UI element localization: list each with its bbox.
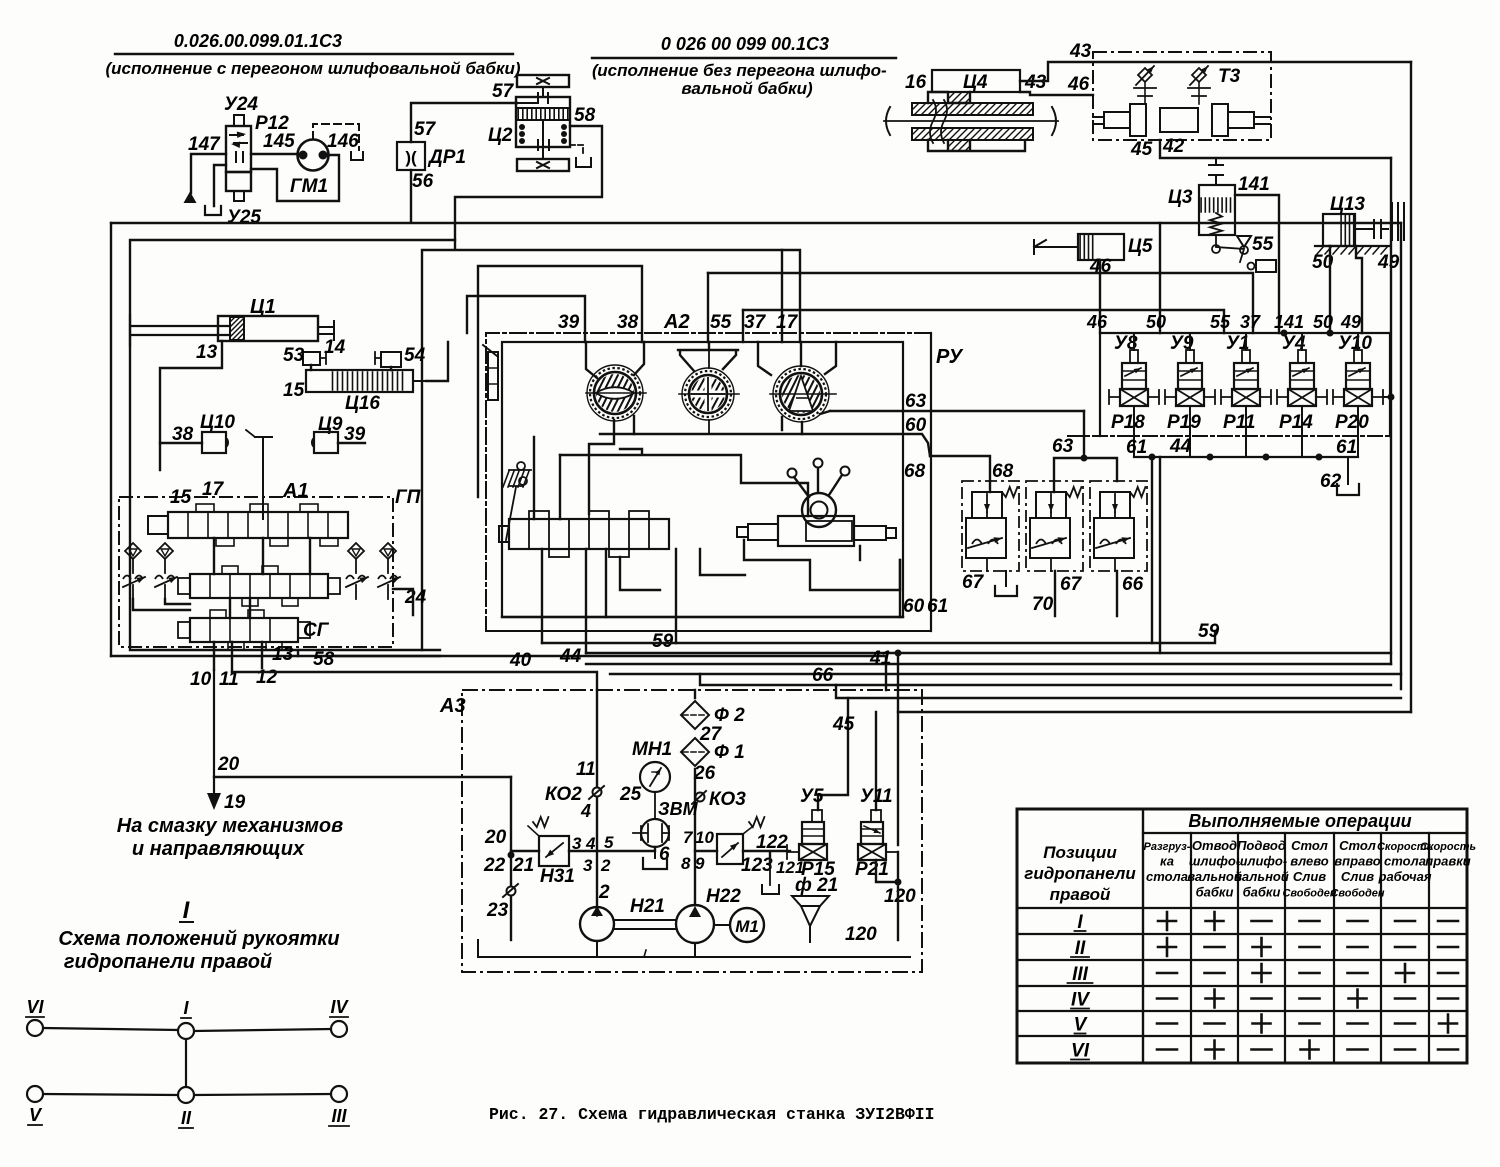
table outer frame <box>1017 809 1467 1063</box>
valve Р18 side ports <box>1109 390 1120 404</box>
svg-text:147: 147 <box>188 134 221 155</box>
svg-text:67: 67 <box>962 572 985 593</box>
motor 1 mount <box>586 342 644 378</box>
svg-text:У25: У25 <box>227 207 261 228</box>
grinding motor circle tri <box>773 366 829 422</box>
solenoid valve У1 coil <box>1234 363 1258 389</box>
svg-text:)(: )( <box>405 148 417 167</box>
valve C10 body <box>202 432 226 453</box>
svg-text:гидропанели правой: гидропанели правой <box>64 951 272 973</box>
C2 dashed drain <box>570 145 583 156</box>
svg-text:I: I <box>1077 912 1083 933</box>
svg-text:49: 49 <box>1377 252 1400 273</box>
motor 2 center vertical <box>708 350 710 434</box>
bus y653 <box>586 652 1391 654</box>
check 23 <box>507 887 516 896</box>
cylinder C4 upper step <box>928 92 970 103</box>
grinding motor circle lens <box>587 365 643 421</box>
solenoid valve У10 pin <box>1354 350 1362 363</box>
valve Р19 X body <box>1176 389 1204 406</box>
cylinder C1 rod right <box>318 321 334 340</box>
valve bank bottom dash-dot <box>1068 435 1390 437</box>
svg-text:РУ: РУ <box>936 346 964 368</box>
svg-text:(исполнение с перегоном шлифов: (исполнение с перегоном шлифовальной баб… <box>105 59 520 78</box>
dash-dot box A1 <box>119 497 393 647</box>
svg-text:63: 63 <box>905 391 927 412</box>
svg-text:16: 16 <box>905 72 927 93</box>
svg-text:и направляющих: и направляющих <box>132 838 305 860</box>
wire 37 long <box>708 273 1253 333</box>
svg-text:20: 20 <box>484 827 507 848</box>
wire 49 down <box>1356 246 1362 333</box>
A2 inner solid box <box>502 342 903 617</box>
svg-text:66: 66 <box>812 665 834 686</box>
svg-text:Слив: Слив <box>1341 869 1374 884</box>
valve 53 box <box>303 352 320 365</box>
svg-text:VI: VI <box>1071 1041 1090 1062</box>
svg-text:IV: IV <box>1071 990 1090 1011</box>
motor 1 axis <box>586 392 646 394</box>
valve Р19 bottom wire <box>1189 406 1191 457</box>
svg-text:СГ: СГ <box>303 620 330 641</box>
A2 spool manifold <box>509 519 669 549</box>
handle unit left caps <box>748 524 778 540</box>
C13 ground hatch <box>1315 245 1390 247</box>
svg-text:61: 61 <box>1336 437 1357 458</box>
bus y631 dashdot <box>486 630 931 632</box>
svg-text:стола: стола <box>1146 869 1188 884</box>
svg-text:3: 3 <box>583 856 593 875</box>
svg-text:Р21: Р21 <box>855 859 889 880</box>
bracket 24 <box>393 589 413 615</box>
svg-text:Ц16: Ц16 <box>345 393 380 414</box>
handle unit body <box>778 516 854 546</box>
position link VI-I <box>43 1028 178 1030</box>
svg-text:141: 141 <box>1238 174 1270 195</box>
svg-text:17: 17 <box>776 312 799 333</box>
svg-text:влево: влево <box>1290 854 1329 869</box>
tank 123 <box>762 885 779 894</box>
svg-text:Разгруз-: Разгруз- <box>1144 841 1191 853</box>
svg-text:26: 26 <box>693 763 716 784</box>
solenoid valve У9 coil <box>1178 363 1202 389</box>
svg-text:Н31: Н31 <box>540 866 575 887</box>
svg-text:рабочая: рабочая <box>1378 869 1432 884</box>
coupling shafts <box>614 920 676 929</box>
C3 lever triangle <box>1237 236 1251 247</box>
manifold down wires <box>542 549 676 643</box>
position node IV <box>331 1021 347 1037</box>
handle unit pipes <box>744 540 900 590</box>
wire KO2 vertical <box>596 690 598 907</box>
cylinder C2 top clutch bars <box>516 93 569 103</box>
cylinder C2 top plate <box>517 75 569 87</box>
wire P20 right <box>1383 396 1391 398</box>
svg-text:141: 141 <box>1274 312 1304 332</box>
motor 2 mount <box>678 342 738 371</box>
svg-text:38: 38 <box>617 312 639 333</box>
svg-text:61: 61 <box>1126 437 1147 458</box>
cylinder C16 body <box>306 370 413 392</box>
svg-text:66: 66 <box>1122 574 1144 595</box>
svg-text:Скорость: Скорость <box>1420 841 1476 853</box>
A3 dash-dot box <box>462 690 922 972</box>
wire 41 down <box>897 653 899 845</box>
svg-text:2: 2 <box>600 856 611 875</box>
cylinder C1 body <box>218 316 318 341</box>
svg-text:Выполняемые операции: Выполняемые операции <box>1188 811 1411 831</box>
valve C3 top symbol <box>1209 160 1223 185</box>
wire from C1 <box>160 341 222 443</box>
svg-text:Позиции: Позиции <box>1043 843 1117 862</box>
svg-text:68: 68 <box>904 461 926 482</box>
relief valve pipes <box>1050 512 1052 571</box>
svg-text:120: 120 <box>845 924 877 945</box>
wire 58 long <box>336 656 886 690</box>
wires A1 internal <box>214 538 310 618</box>
motor 3 mount <box>758 342 836 375</box>
relief valve lower throttle <box>1094 518 1134 558</box>
svg-text:Слив: Слив <box>1293 869 1326 884</box>
cylinder C4 lower hatched band <box>912 128 1033 140</box>
solenoid valve У8 coil <box>1122 363 1146 389</box>
bus 59 line <box>542 631 1215 643</box>
svg-text:55: 55 <box>1210 312 1231 332</box>
wire U25 to tank <box>214 165 226 206</box>
svg-text:21: 21 <box>512 855 534 876</box>
wire 43 from C4 to right edge <box>1020 62 1411 81</box>
svg-text:Ц3: Ц3 <box>1168 187 1193 208</box>
svg-text:23: 23 <box>486 900 509 921</box>
handle unit small circles <box>788 469 797 478</box>
cylinder C2 hatched band <box>516 108 570 120</box>
solenoid valve У10 coil <box>1346 363 1370 389</box>
valve bank outer box <box>1100 333 1390 436</box>
svg-text:исполнение без перегона шлифо-: исполнение без перегона шлифо- <box>597 61 887 80</box>
funnel F21 <box>792 896 829 906</box>
svg-text:15: 15 <box>170 487 192 508</box>
title 1 underline <box>115 53 513 55</box>
solenoid valve У4 pin <box>1298 350 1306 363</box>
relief valve pipes <box>1114 512 1116 571</box>
relief valve lower throttle <box>966 518 1006 558</box>
svg-text:43: 43 <box>1024 72 1047 93</box>
svg-text:Ф 2: Ф 2 <box>714 705 745 726</box>
svg-text:55: 55 <box>1252 234 1274 255</box>
svg-text:59: 59 <box>652 631 674 652</box>
valve U11 X <box>858 844 886 860</box>
suction line <box>478 941 910 957</box>
wire 20 bus <box>214 776 511 778</box>
svg-text:Н22: Н22 <box>706 886 741 907</box>
C3 lever linkage <box>1216 235 1244 262</box>
check KO3 <box>696 793 705 802</box>
switch box 55 <box>1256 260 1276 272</box>
relief valve upper <box>1036 492 1066 518</box>
svg-text:7: 7 <box>683 828 694 847</box>
right edge vertical x1391 <box>1390 158 1392 664</box>
bus y712 <box>898 711 1411 713</box>
svg-text:123: 123 <box>741 855 773 876</box>
valve Р19 side ports <box>1165 390 1176 404</box>
svg-text:40: 40 <box>509 650 532 671</box>
svg-text:На смазку механизмов: На смазку механизмов <box>117 815 343 837</box>
svg-text:20: 20 <box>217 754 240 775</box>
wire 17 vertical <box>781 250 783 342</box>
svg-text:ГМ1: ГМ1 <box>290 176 328 197</box>
bus y617 <box>502 616 903 618</box>
handle unit ring <box>802 493 836 527</box>
table header operations divider <box>1143 832 1467 834</box>
svg-text:9: 9 <box>695 854 705 873</box>
svg-text:вправо: вправо <box>1334 854 1380 869</box>
table column lines <box>1190 833 1192 1063</box>
valve Р11 side ports <box>1221 390 1232 404</box>
wire N31 connections <box>511 847 655 851</box>
right edge vertical x1411 <box>1410 62 1412 712</box>
valve ZVM <box>641 819 669 847</box>
svg-text:ка: ка <box>1160 854 1174 869</box>
wire 55 long <box>743 310 1224 333</box>
solenoid valve У4 coil <box>1290 363 1314 389</box>
svg-text:V: V <box>29 1105 43 1125</box>
svg-text:37: 37 <box>1240 312 1261 332</box>
solenoid valve У1 pin <box>1242 350 1250 363</box>
loop GM1 to valve <box>251 155 339 201</box>
svg-text:61: 61 <box>927 596 948 617</box>
svg-text:41: 41 <box>869 648 891 669</box>
bus y698 <box>836 685 1401 698</box>
C13 rod and piston <box>1355 220 1388 238</box>
wire bus 56 horizontal <box>111 170 1401 223</box>
svg-text:5: 5 <box>604 833 614 852</box>
wire 20 21 junction <box>508 852 515 859</box>
svg-text:Ц5: Ц5 <box>1128 236 1153 257</box>
svg-text:У24: У24 <box>224 94 258 115</box>
wire 23 down <box>510 896 512 940</box>
A2 left gauge pin <box>488 352 498 400</box>
svg-text:III: III <box>331 1106 347 1126</box>
motor 3 axis <box>770 393 836 395</box>
motor 2 axis <box>679 393 739 395</box>
valve U24 pin bottom <box>234 191 244 201</box>
svg-text:45: 45 <box>832 714 855 735</box>
wire 141 from C3 <box>1235 195 1279 333</box>
motor 1 pipes <box>589 416 634 455</box>
cylinder C16 hatched piston area <box>333 372 403 390</box>
dashed drain of GM1 <box>313 124 359 150</box>
svg-text:Отвод: Отвод <box>1192 838 1237 853</box>
wire 38 <box>160 443 202 470</box>
svg-text:6: 6 <box>659 844 670 865</box>
svg-text:67: 67 <box>1060 574 1083 595</box>
valve Р20 bottom wire <box>1357 406 1359 457</box>
throttle DR1 box <box>397 142 425 170</box>
relief 123 <box>717 834 743 864</box>
svg-text:Ц10: Ц10 <box>200 412 235 433</box>
valve Р14 X body <box>1288 389 1316 406</box>
filter F2 <box>681 701 709 729</box>
valve U5 X <box>799 844 827 860</box>
bus y674 <box>610 673 1401 675</box>
solenoid valve У9 pin <box>1186 350 1194 363</box>
position node III <box>331 1086 347 1102</box>
wire 38 vertical <box>478 266 642 497</box>
svg-text:50: 50 <box>1313 312 1333 332</box>
svg-text:У11: У11 <box>860 786 893 807</box>
wire 20 down arrow <box>213 670 215 793</box>
svg-text:19: 19 <box>224 792 246 813</box>
svg-text:вальной бабки): вальной бабки) <box>681 79 813 98</box>
svg-text:ДР1: ДР1 <box>427 147 466 168</box>
grinding motor circle cross <box>682 368 734 420</box>
svg-text:46: 46 <box>1086 312 1108 332</box>
svg-text:Р18: Р18 <box>1111 412 1145 433</box>
cylinder C5 rod arrow <box>1034 246 1078 248</box>
T3 throttle 1 <box>1138 68 1152 82</box>
svg-text:58: 58 <box>574 105 596 126</box>
svg-text:Ц4: Ц4 <box>963 72 988 93</box>
svg-text:11: 11 <box>576 759 596 780</box>
svg-text:146: 146 <box>327 131 359 152</box>
svg-text:вальной: вальной <box>1234 869 1289 884</box>
wire 68 into box1 <box>989 481 991 492</box>
wire 120 down <box>876 852 898 940</box>
motor 3 pipes <box>782 411 830 434</box>
relief valve box 67 <box>962 481 1019 571</box>
position node V <box>27 1086 43 1102</box>
wire 46 into T3 <box>1020 92 1093 95</box>
svg-text:37: 37 <box>744 312 767 333</box>
A1 spool top row <box>168 512 348 538</box>
handle unit right caps <box>854 526 886 540</box>
svg-text:62: 62 <box>1320 471 1342 492</box>
svg-text:Схема положений рукоятки: Схема положений рукоятки <box>58 928 339 950</box>
wire top pins <box>1133 333 1135 350</box>
junction 63 <box>1081 455 1088 462</box>
svg-text:10: 10 <box>695 828 714 847</box>
valve Р14 side ports <box>1277 390 1288 404</box>
gauge MN1 <box>640 762 670 792</box>
valve Р20 side ports <box>1333 390 1344 404</box>
cylinder C1 rod <box>130 315 230 346</box>
filter F1 <box>681 738 709 766</box>
svg-text:58: 58 <box>313 649 335 670</box>
valve R12 body upper <box>226 126 251 172</box>
svg-text:ГП: ГП <box>395 487 421 508</box>
svg-text:стола: стола <box>1384 854 1426 869</box>
wire 50 mid vertical <box>1159 223 1161 333</box>
valve Р20 X body <box>1344 389 1372 406</box>
svg-text:2: 2 <box>598 882 610 903</box>
valve C3 body <box>1199 185 1235 235</box>
relief valve lower throttle <box>1030 518 1070 558</box>
svg-text:Подвод: Подвод <box>1237 838 1286 853</box>
cylinder C1 piston <box>230 317 244 340</box>
svg-text:46: 46 <box>1067 74 1090 95</box>
svg-text:Стол: Стол <box>1291 838 1328 853</box>
svg-text:42: 42 <box>1162 136 1185 157</box>
supply triangle at 147 <box>184 192 197 204</box>
svg-text:50: 50 <box>1146 312 1166 332</box>
svg-text:0.026.00.099.01.1С3: 0.026.00.099.01.1С3 <box>174 31 342 51</box>
left box bottom <box>111 655 440 657</box>
manifold internal wires <box>534 437 808 519</box>
wire 40 44 verticals <box>542 617 586 653</box>
svg-text:13: 13 <box>196 342 218 363</box>
cylinder C13 body <box>1323 214 1355 246</box>
svg-text:15: 15 <box>283 380 305 401</box>
ZVM tank <box>654 847 656 858</box>
svg-text:4: 4 <box>580 801 591 821</box>
valve C9 body <box>314 432 338 453</box>
T stem <box>255 437 272 519</box>
position link I-IV <box>194 1029 331 1031</box>
svg-text:Р11: Р11 <box>1223 412 1255 433</box>
cylinder C2 body <box>516 97 570 147</box>
wire C5 down <box>1099 260 1101 333</box>
tick 1 <box>644 950 646 957</box>
tank 70 <box>1005 571 1007 586</box>
svg-text:Рис. 27. Схема гидравлическая: Рис. 27. Схема гидравлическая станка ЗУI… <box>489 1105 935 1124</box>
svg-text:49: 49 <box>1340 312 1361 332</box>
wire 45 vertical <box>818 698 848 810</box>
svg-text:54: 54 <box>404 345 426 366</box>
tank 62 <box>1347 457 1349 484</box>
wire 68 exit <box>930 456 990 481</box>
tank at 146 <box>351 152 363 160</box>
C13 wall <box>1392 203 1404 240</box>
svg-text:V: V <box>1074 1015 1088 1036</box>
wires C16 to right <box>426 342 448 381</box>
wire 53 to C16 <box>311 365 391 370</box>
valve C3 spring <box>1210 213 1222 234</box>
position link II-III <box>194 1094 331 1095</box>
svg-text:А1: А1 <box>282 480 309 502</box>
position link I-II <box>185 1039 187 1087</box>
svg-text:бабки: бабки <box>1196 885 1234 900</box>
svg-text:шлифо-: шлифо- <box>1189 854 1240 869</box>
svg-text:Ц2: Ц2 <box>488 125 513 146</box>
A2 outer dash-dot box <box>486 333 931 631</box>
cylinder C16 rod <box>413 380 426 382</box>
svg-text:59: 59 <box>1198 621 1220 642</box>
wire bank drains down <box>1152 457 1160 653</box>
A3 inner bottom <box>477 940 479 957</box>
position node I <box>178 1023 194 1039</box>
svg-text:57: 57 <box>414 119 437 140</box>
relief valve pipes <box>986 512 988 571</box>
wires 123 <box>695 851 790 864</box>
svg-text:57: 57 <box>492 81 515 102</box>
svg-text:III: III <box>1072 964 1089 985</box>
position link V-II <box>43 1094 178 1095</box>
bank drain bus <box>1134 456 1358 458</box>
wires SG down <box>214 642 298 672</box>
svg-text:Ф 1: Ф 1 <box>714 742 745 763</box>
svg-text:II: II <box>181 1108 192 1128</box>
A1 flow control valves left <box>125 543 141 559</box>
cylinder C4 lower step <box>928 140 1025 151</box>
svg-text:А2: А2 <box>663 311 690 333</box>
svg-text:У10: У10 <box>1338 333 1372 354</box>
svg-text:ф 21: ф 21 <box>795 875 838 896</box>
svg-text:55: 55 <box>710 312 732 333</box>
wire from C2 bottom loop <box>422 126 800 650</box>
svg-text:VI: VI <box>26 997 44 1017</box>
A2 hatch pin symbol <box>503 471 529 487</box>
junction dots above bank <box>1281 330 1288 337</box>
